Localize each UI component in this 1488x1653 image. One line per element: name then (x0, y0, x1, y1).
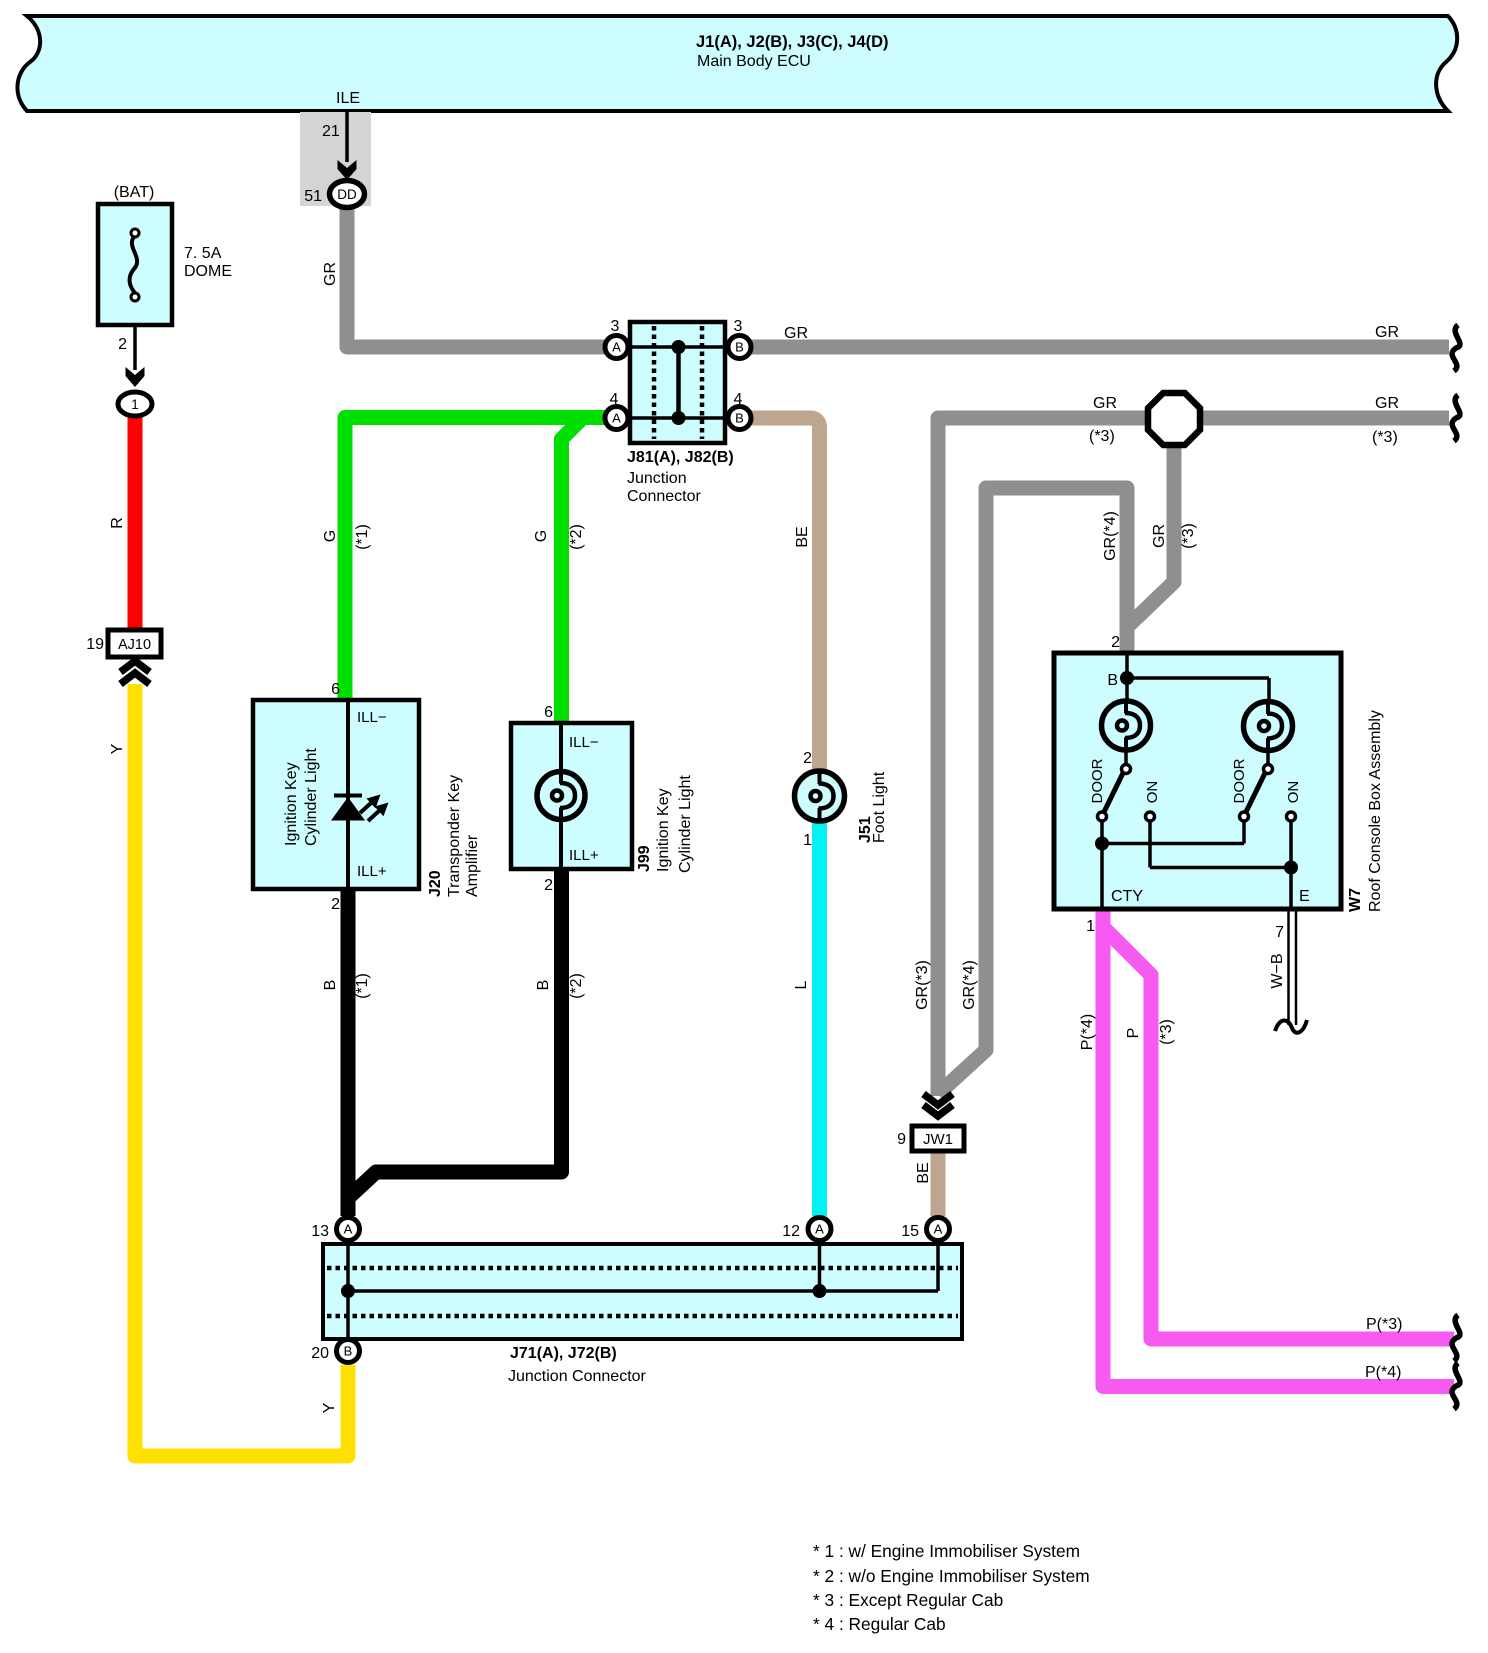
bulb 2 inside W7 (1244, 702, 1293, 751)
svg-text:ILL+: ILL+ (357, 863, 387, 880)
Main Body ECU banner (17, 16, 1457, 111)
svg-text:AJ10: AJ10 (118, 637, 151, 653)
svg-text:2: 2 (803, 750, 812, 767)
wire BE from J82 pin 4B to foot light J51 (738, 418, 820, 772)
wire B (*1) from J20 pin 2 to J71 pin 13A (341, 889, 356, 1216)
component J99 Ignition Key Cylinder Light (511, 723, 632, 869)
junction J71 pin 13A (311, 1218, 359, 1241)
node CTY wiring (1100, 821, 1104, 909)
svg-text:ILL+: ILL+ (569, 847, 599, 864)
svg-text:GR: GR (1375, 395, 1399, 412)
svg-text:4: 4 (734, 391, 743, 408)
switch 2 (DOOR/ON) inside W7 (1266, 750, 1270, 765)
svg-text:ON: ON (1144, 781, 1161, 804)
svg-text:JW1: JW1 (923, 1131, 953, 1148)
node B inside W7 (1125, 653, 1129, 702)
svg-text:* 2 : w/o Engine Immobiliser S: * 2 : w/o Engine Immobiliser System (813, 1566, 1090, 1586)
svg-text:G: G (533, 530, 550, 542)
foot light bulb J51 (795, 771, 845, 821)
svg-text:* 1 : w/ Engine Immobiliser Sy: * 1 : w/ Engine Immobiliser System (813, 1541, 1080, 1561)
LED symbol inside J20 (334, 794, 362, 798)
svg-text:Transponder Key: Transponder Key (446, 775, 463, 897)
shaded connector region pin 21 (300, 112, 371, 206)
svg-text:7. 5A: 7. 5A (184, 245, 222, 262)
svg-text:J20: J20 (427, 870, 444, 897)
svg-text:(*3): (*3) (1180, 523, 1197, 549)
wire row 3 inside J81 (617, 345, 739, 349)
svg-text:(*2): (*2) (568, 973, 585, 999)
svg-text:GR: GR (784, 325, 808, 342)
svg-text:* 4 : Regular Cab: * 4 : Regular Cab (813, 1614, 946, 1634)
junction connector J81(A), J82(B) (630, 322, 725, 443)
svg-text:(*2): (*2) (568, 524, 585, 550)
connector JW1 (912, 1126, 964, 1151)
node E wiring (1148, 821, 1152, 868)
bulb inside J99 (537, 772, 585, 820)
svg-text:ILE: ILE (336, 90, 360, 107)
break in W-B wire (1275, 1020, 1307, 1033)
junction J71 pin 15A (901, 1218, 949, 1241)
svg-text:B: B (535, 980, 552, 991)
svg-text:Main Body ECU: Main Body ECU (697, 53, 811, 70)
svg-text:B: B (1107, 672, 1118, 689)
svg-text:A: A (815, 1222, 824, 1237)
wire GR from DD to junction J81 pin 3A (347, 201, 615, 347)
svg-text:DOOR: DOOR (1089, 758, 1106, 803)
wire GR(*3) from right edge through octagon down to JW1 (938, 418, 1449, 1096)
svg-text:Roof Console Box Assembly: Roof Console Box Assembly (1367, 710, 1384, 912)
svg-text:ILL−: ILL− (569, 734, 599, 751)
svg-text:1: 1 (1086, 918, 1095, 935)
svg-text:(*3): (*3) (1372, 429, 1398, 446)
svg-text:(*3): (*3) (1089, 428, 1115, 445)
svg-text:Connector: Connector (627, 488, 701, 505)
svg-text:A: A (344, 1222, 353, 1237)
svg-text:A: A (612, 411, 621, 426)
switch 1 (DOOR/ON) inside W7 (1124, 750, 1128, 765)
svg-text:DOME: DOME (184, 263, 232, 280)
svg-text:ILL−: ILL− (357, 709, 387, 726)
svg-text:A: A (612, 340, 621, 355)
svg-text:19: 19 (86, 636, 104, 653)
svg-text:21: 21 (322, 123, 340, 140)
wire G (*2) from J81 pin 4A to J99 (562, 418, 584, 726)
svg-text:2: 2 (544, 877, 553, 894)
bus bar inside J81 (676, 347, 681, 418)
svg-text:ON: ON (1285, 781, 1302, 804)
svg-text:Cylinder Light: Cylinder Light (677, 775, 694, 873)
junction J82 pin 4B (728, 391, 751, 430)
junction J71 pin 12A (782, 1218, 831, 1241)
svg-text:P(*4): P(*4) (1079, 1014, 1096, 1050)
connector DD (330, 181, 365, 208)
svg-text:L: L (793, 980, 810, 989)
svg-text:4: 4 (610, 391, 619, 408)
svg-text:J1(A), J2(B), J3(C), J4(D): J1(A), J2(B), J3(C), J4(D) (696, 33, 889, 51)
svg-text:Ignition Key: Ignition Key (283, 762, 300, 846)
svg-text:P(*3): P(*3) (1366, 1316, 1402, 1333)
wire GR (*3) from octagon down to roof console pin 2 (1127, 445, 1174, 651)
junction J82 pin 3B (728, 318, 751, 359)
wire Y from AJ10 splice to J72 pin 20B (135, 684, 348, 1456)
continuation break GR(*3) right (1452, 395, 1460, 441)
svg-text:(BAT): (BAT) (114, 184, 155, 201)
svg-text:W7: W7 (1347, 888, 1364, 912)
wire R from connector 1 to AJ10 (128, 416, 143, 631)
svg-text:2: 2 (331, 896, 340, 913)
svg-text:7: 7 (1275, 924, 1284, 941)
svg-text:Cylinder Light: Cylinder Light (303, 748, 320, 846)
svg-text:BE: BE (794, 526, 811, 547)
svg-text:Y: Y (109, 743, 126, 754)
wire W-B from W7 pin 7 (1287, 911, 1290, 1025)
svg-text:B: B (344, 1344, 353, 1359)
svg-text:GR: GR (1375, 324, 1399, 341)
svg-text:3: 3 (734, 318, 743, 335)
svg-text:GR: GR (1093, 395, 1117, 412)
junction connector J71(A), J72(B) (323, 1244, 962, 1339)
svg-text:GR: GR (1151, 524, 1168, 548)
junction J81 pin 4A (605, 391, 628, 430)
svg-text:9: 9 (897, 1131, 906, 1148)
octagon connector symbol (1148, 393, 1200, 445)
arrow into connector DD (338, 160, 357, 180)
svg-text:20: 20 (311, 1345, 329, 1362)
svg-text:1: 1 (803, 832, 812, 849)
wire from ECU pin 21 (345, 111, 349, 162)
component W7 Roof Console Box Assembly (1054, 653, 1341, 909)
svg-text:51: 51 (304, 188, 322, 205)
svg-text:Ignition Key: Ignition Key (655, 788, 672, 872)
svg-text:CTY: CTY (1111, 888, 1143, 905)
splice arrow into JW1 (924, 1094, 953, 1105)
svg-text:15: 15 (901, 1223, 919, 1240)
svg-text:Junction Connector: Junction Connector (508, 1368, 647, 1385)
svg-text:B: B (735, 340, 744, 355)
junction J81 pin 3A (605, 318, 628, 359)
svg-text:G: G (322, 530, 339, 542)
wire L from J51 pin 1 to J71 pin 12A (812, 821, 827, 1216)
svg-text:DD: DD (337, 187, 357, 202)
svg-text:2: 2 (1111, 634, 1120, 651)
svg-text:Junction: Junction (627, 470, 687, 487)
wire P(*4) from W7 CTY pin 1 to right edge (1103, 911, 1454, 1387)
wire row 4 inside J81 (617, 416, 739, 420)
svg-text:J99: J99 (636, 845, 653, 872)
continuation break P(*4) (1452, 1363, 1460, 1409)
svg-text:Y: Y (321, 1402, 338, 1413)
svg-text:A: A (934, 1222, 943, 1237)
svg-text:(*1): (*1) (354, 524, 371, 550)
svg-text:GR(*4): GR(*4) (961, 960, 978, 1010)
arrow into connector 1 (126, 367, 145, 387)
svg-text:13: 13 (311, 1223, 329, 1240)
svg-text:Amplifier: Amplifier (464, 834, 481, 897)
splice arrow below AJ10 (121, 661, 150, 672)
svg-text:B: B (735, 411, 744, 426)
svg-text:GR(*3): GR(*3) (914, 960, 931, 1010)
svg-text:GR(*4): GR(*4) (1102, 511, 1119, 561)
svg-text:B: B (322, 980, 339, 991)
svg-text:J81(A), J82(B): J81(A), J82(B) (627, 449, 734, 466)
svg-text:R: R (109, 517, 126, 529)
connector AJ10 (108, 630, 161, 657)
svg-text:J71(A), J72(B): J71(A), J72(B) (510, 1345, 617, 1362)
svg-text:GR: GR (322, 262, 339, 286)
svg-text:3: 3 (611, 318, 620, 335)
svg-text:6: 6 (544, 704, 553, 721)
svg-text:* 3 : Except Regular Cab: * 3 : Except Regular Cab (813, 1590, 1003, 1610)
svg-text:W−B: W−B (1269, 953, 1286, 988)
bus bar inside J71 (348, 1289, 938, 1293)
continuation break P(*3) (1452, 1315, 1460, 1361)
wire G (*1) from J81 pin 4A to J20 (345, 418, 612, 703)
svg-text:1: 1 (131, 397, 139, 412)
continuation break GR right (1452, 325, 1460, 371)
svg-text:(*1): (*1) (354, 973, 371, 999)
connector 1 (118, 392, 152, 416)
svg-text:2: 2 (118, 336, 127, 353)
junction J72 pin 20B (311, 1340, 359, 1363)
svg-text:P: P (1125, 1028, 1142, 1039)
svg-text:(*3): (*3) (1158, 1019, 1175, 1045)
wire GR(*4) from JW1 up and over to roof console pin 2 (938, 488, 1127, 1094)
svg-text:BE: BE (915, 1162, 932, 1183)
svg-text:P(*4): P(*4) (1365, 1364, 1401, 1381)
wire P (*3) branch to right edge (1105, 929, 1454, 1339)
svg-text:6: 6 (331, 681, 340, 698)
bulb 1 inside W7 (1102, 701, 1151, 750)
wire GR from junction J82 pin 3B to right edge (738, 340, 1449, 355)
component J20 Transponder Key Amplifier (Ignition Key Cylinder Light) (253, 700, 419, 889)
svg-text:Foot Light: Foot Light (871, 771, 888, 843)
wire B (*2) from J99 pin 2 joining at J71 pin 13A (348, 869, 562, 1198)
svg-text:E: E (1299, 888, 1310, 905)
svg-text:12: 12 (782, 1223, 800, 1240)
svg-text:DOOR: DOOR (1231, 758, 1248, 803)
wire BE from JW1 to J71 pin 15A (931, 1151, 946, 1216)
